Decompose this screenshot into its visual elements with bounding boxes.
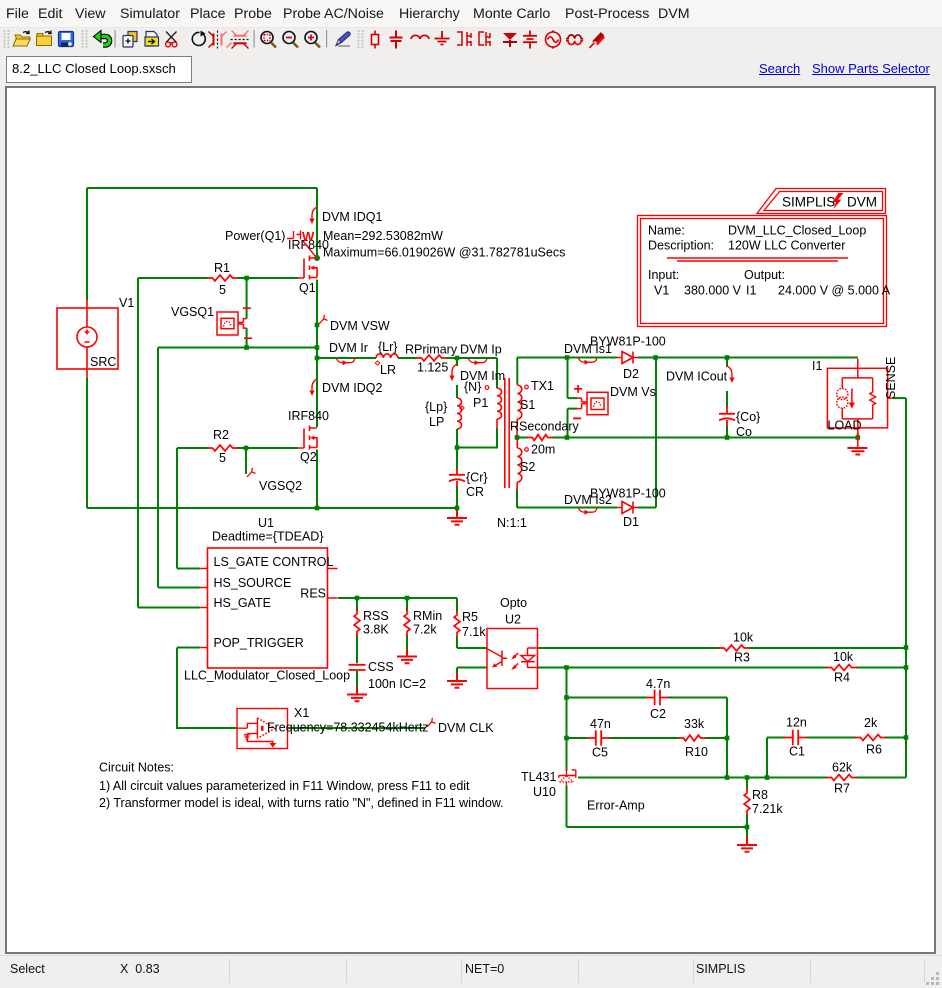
wire Q2 source — [316, 450, 318, 509]
svg-text:DVM ICout: DVM ICout — [666, 370, 728, 384]
label Q1 — [299, 281, 316, 295]
transistor Q1 IRF840 — [298, 256, 317, 280]
label {N} — [464, 380, 481, 394]
label 380V — [684, 284, 742, 298]
svg-text:TX1: TX1 — [531, 379, 554, 393]
label note 1 — [99, 779, 470, 793]
probe DVM Ip — [468, 358, 487, 365]
junction R2 VGSQ2 — [244, 446, 249, 451]
label U10 — [533, 785, 556, 799]
svg-text:C2: C2 — [650, 707, 666, 721]
svg-text:R5: R5 — [462, 610, 478, 624]
label RPrimary — [405, 343, 458, 357]
capacitor Co — [719, 406, 735, 426]
label R4 — [834, 671, 850, 685]
junction DVM VSW node — [315, 323, 320, 328]
label DVM Im — [460, 369, 505, 383]
svg-text:CSS: CSS — [368, 660, 394, 674]
wire Q1 drain — [316, 188, 318, 256]
label Deadtime — [212, 530, 324, 544]
svg-text:5: 5 — [219, 451, 226, 465]
svg-text:10k: 10k — [833, 650, 854, 664]
junction LP top — [455, 356, 460, 361]
svg-text:VGSQ1: VGSQ1 — [171, 305, 214, 319]
wire VIN top rail — [87, 187, 317, 189]
pin label RES — [300, 587, 326, 601]
wire VGSQ2 probe net — [245, 448, 247, 474]
value label RPrimary 1.125 — [417, 361, 448, 375]
label C2 — [650, 707, 666, 721]
svg-text:RSecondary: RSecondary — [510, 420, 580, 434]
svg-text:S1: S1 — [520, 398, 535, 412]
svg-text:LLC_Modulator_Closed_Loop: LLC_Modulator_Closed_Loop — [184, 669, 350, 683]
svg-text:X1: X1 — [294, 706, 309, 720]
wire Q2 drain — [316, 358, 318, 427]
probe DVM ICout — [727, 366, 735, 383]
svg-text:1) All circuit values paramete: 1) All circuit values parameterized in F… — [99, 779, 470, 793]
svg-text:U2: U2 — [505, 613, 521, 627]
svg-text:Description:: Description: — [648, 239, 714, 253]
resistor RSS — [354, 610, 360, 636]
label 24V 5A — [778, 284, 891, 298]
svg-text:Input:: Input: — [648, 268, 679, 282]
wire HS_SOURCE net — [158, 348, 200, 588]
junction R3 sense — [904, 645, 909, 650]
svg-text:7.1k: 7.1k — [462, 625, 486, 639]
capacitor CSS — [349, 665, 366, 670]
svg-text:V1: V1 — [654, 284, 669, 298]
label X1 — [294, 706, 309, 720]
label DVM IDQ1 — [322, 210, 382, 224]
svg-text:120W LLC Converter: 120W LLC Converter — [728, 239, 845, 253]
svg-text:CR: CR — [466, 485, 484, 499]
svg-text:SENSE: SENSE — [884, 357, 898, 399]
svg-text:Error-Amp: Error-Amp — [587, 799, 645, 813]
pin label LS_GATE CONTROL — [214, 555, 334, 569]
svg-text:62k: 62k — [832, 761, 853, 775]
probe DVM Is1 — [578, 358, 597, 365]
wire R2 gate Q2 — [177, 447, 298, 449]
wire secondary return — [517, 437, 857, 439]
wire TL431 anode to R8 bottom — [567, 786, 748, 827]
label note 2 — [99, 796, 504, 810]
svg-text:DVM: DVM — [847, 195, 877, 210]
ground RMin — [397, 649, 417, 664]
resistor RMin — [404, 610, 410, 636]
svg-text:Deadtime={TDEAD}: Deadtime={TDEAD} — [212, 530, 324, 544]
label Output — [744, 268, 785, 282]
svg-text:DVM Ir: DVM Ir — [329, 341, 368, 355]
svg-text:D1: D1 — [623, 515, 639, 529]
label DVM Ir — [329, 341, 368, 355]
svg-text:24.000 V @ 5.000 A: 24.000 V @ 5.000 A — [778, 284, 891, 298]
value label C2 4.7n — [646, 677, 670, 691]
junction load return — [856, 435, 861, 440]
svg-text:{N}: {N} — [464, 380, 481, 394]
label U1 — [258, 516, 274, 530]
label Frequency — [267, 721, 429, 735]
resistor R2 — [208, 445, 237, 451]
pin label POP_TRIGGER — [214, 636, 304, 650]
svg-text:12n: 12n — [786, 716, 807, 730]
oscillator X1 — [237, 709, 288, 749]
svg-text:Output:: Output: — [744, 268, 785, 282]
subcircuit U1 LLC_Modulator_Closed_Loop — [200, 548, 338, 668]
label LR — [380, 363, 396, 377]
junction RES RSS — [355, 596, 360, 601]
label DVM Ip — [460, 343, 502, 357]
label Power(Q1) — [225, 229, 285, 243]
label DVM_LLC_Closed_Loop — [728, 224, 866, 238]
wire LP branch — [456, 358, 458, 448]
svg-text:I1: I1 — [746, 284, 756, 298]
wire TL431 cathode net — [566, 668, 568, 772]
probe DVM CLK — [427, 718, 436, 727]
junction D2 Vout — [653, 355, 658, 360]
wire R1 gate Q1 — [138, 277, 298, 279]
wire switch node to LR RPrimary P1 — [317, 358, 497, 388]
label D2 — [623, 367, 639, 381]
svg-text:LOAD: LOAD — [828, 419, 862, 433]
svg-text:HS_SOURCE: HS_SOURCE — [214, 576, 292, 590]
wire S2 to D1 — [517, 489, 656, 508]
junction S1 D2 node — [565, 355, 570, 360]
probe VGSQ2 — [247, 468, 256, 477]
label TX1 — [531, 379, 554, 393]
svg-text:C5: C5 — [592, 746, 608, 760]
probe DVM VSW — [319, 315, 328, 324]
resistor R10 — [679, 735, 705, 741]
label R3 — [734, 651, 750, 665]
wire RMin branch — [406, 598, 408, 649]
wire V1 bottom — [86, 378, 88, 508]
label R10 — [685, 745, 708, 759]
probe DVM Vs — [573, 385, 608, 418]
svg-text:Q2: Q2 — [300, 450, 317, 464]
svg-text:Frequency=78.332454kHertz: Frequency=78.332454kHertz — [267, 721, 429, 735]
diode D2 BYW81P-100 — [617, 352, 638, 364]
resistor R3 — [720, 645, 749, 651]
svg-text:RPrimary: RPrimary — [405, 343, 458, 357]
wire P1 bottom — [457, 429, 497, 448]
label R6 — [866, 743, 882, 757]
svg-text:W: W — [302, 229, 315, 244]
label DVM IDQ2 — [322, 381, 382, 395]
svg-text:Circuit Notes:: Circuit Notes: — [99, 761, 174, 775]
svg-text:DVM_LLC_Closed_Loop: DVM_LLC_Closed_Loop — [728, 224, 866, 238]
resistor RSecondary — [528, 435, 552, 441]
junction switch node — [315, 356, 320, 361]
svg-text:R8: R8 — [752, 788, 768, 802]
wire DVM Vs minus — [568, 409, 578, 438]
label LLC_Modulator_Closed_Loop — [184, 669, 350, 683]
junction CR ground rail — [455, 506, 460, 511]
current source load I1 — [827, 359, 893, 448]
wire CR branch — [456, 448, 458, 509]
label RSS — [363, 609, 389, 623]
label R7 — [834, 782, 850, 796]
junction opto TL431 — [564, 665, 569, 670]
svg-text:{Co}: {Co} — [736, 410, 760, 424]
label DVM Vs — [610, 385, 656, 399]
label SIMPLIS logo — [782, 195, 835, 210]
label S1 — [520, 398, 535, 412]
svg-text:SIMPLIS: SIMPLIS — [782, 195, 835, 210]
label SENSE — [884, 357, 898, 399]
label V1 input — [654, 284, 669, 298]
value label R2 5 — [219, 451, 226, 465]
svg-text:7.21k: 7.21k — [752, 802, 783, 816]
svg-text:BYW81P-100: BYW81P-100 — [590, 487, 666, 501]
junction R4 sense — [904, 665, 909, 670]
capacitor C1 — [785, 731, 806, 745]
svg-text:R7: R7 — [834, 782, 850, 796]
label Q2 — [300, 450, 317, 464]
wire C5 R10 branch — [567, 737, 728, 739]
node Q1 drain dot — [314, 255, 320, 261]
label Co — [736, 425, 752, 439]
wire R8 top — [746, 778, 748, 790]
transistor Q2 IRF840 — [298, 426, 317, 450]
label S2 — [520, 460, 535, 474]
value label R5 7.1k — [462, 625, 486, 639]
probe DVM Is2 — [578, 508, 597, 515]
svg-text:DVM Vs: DVM Vs — [610, 385, 656, 399]
wire HS_GATE net — [138, 278, 200, 608]
svg-text:VGSQ2: VGSQ2 — [259, 479, 302, 493]
value label RSecondary 20m — [531, 443, 555, 457]
value label RMin 7.2k — [413, 623, 437, 637]
junction RES RMin — [405, 596, 410, 601]
wire load bottom — [857, 433, 859, 438]
wire TL431 ref to R7 — [578, 777, 906, 779]
svg-text:LR: LR — [380, 363, 396, 377]
param marker Lr — [375, 361, 379, 365]
svg-text:Maximum=66.019026W @31.782781u: Maximum=66.019026W @31.782781uSecs — [323, 246, 565, 260]
svg-text:U10: U10 — [533, 785, 556, 799]
resistor R4 — [827, 665, 856, 671]
label SRC — [90, 355, 116, 369]
ground CR — [447, 510, 467, 525]
label {Co} — [736, 410, 760, 424]
wire LS_GATE net — [177, 448, 200, 569]
label RSecondary — [510, 420, 580, 434]
inductor LR — [376, 354, 398, 358]
transformer primary P1 — [497, 387, 502, 429]
svg-text:{Lr}: {Lr} — [378, 340, 397, 354]
ground opto — [447, 673, 467, 688]
label LOAD — [828, 419, 862, 433]
junction source sense — [315, 345, 320, 350]
wire POP_TRIGGER net — [177, 648, 237, 729]
wire C1 left vertical — [766, 738, 768, 778]
junction ref node R8 — [745, 775, 750, 780]
label DVM Is2 — [564, 493, 612, 507]
junction C2 R10 right — [725, 736, 730, 741]
label DVM ICout — [666, 370, 728, 384]
optocoupler U2 — [487, 629, 538, 689]
wire SENSE tap — [893, 397, 906, 399]
shunt regulator U10 TL431 — [559, 769, 576, 786]
label DVM Is1 — [564, 342, 612, 356]
label DVM CLK — [438, 721, 494, 735]
marker TX1 — [525, 385, 529, 389]
svg-text:100n IC=2: 100n IC=2 — [368, 677, 426, 691]
svg-text:5: 5 — [219, 283, 226, 297]
marker N — [485, 386, 489, 390]
svg-text:P1: P1 — [473, 396, 488, 410]
value label R8 7.21k — [752, 802, 783, 816]
wire opto cathode to ground — [457, 668, 487, 674]
label Name — [648, 224, 685, 238]
junction R8 ground node — [745, 825, 750, 830]
svg-text:N:1:1: N:1:1 — [497, 516, 527, 530]
svg-text:Opto: Opto — [500, 596, 527, 610]
svg-text:Power(Q1): Power(Q1) — [225, 229, 285, 243]
probe DVM Im — [449, 364, 457, 381]
svg-text:33k: 33k — [684, 717, 705, 731]
wire CSS to ground — [356, 671, 358, 687]
junction VGSQ1 bottom — [244, 345, 249, 350]
svg-text:DVM IDQ1: DVM IDQ1 — [322, 210, 382, 224]
transformer secondary S1 — [517, 384, 522, 436]
resistor R6 — [856, 735, 885, 741]
DVM logo lightning — [833, 193, 844, 209]
wire opto out to R3 — [538, 647, 907, 649]
label C1 — [789, 745, 805, 759]
wire S1 to D2 to Vout — [517, 357, 858, 359]
wire Co top — [726, 358, 728, 368]
resistor R7 — [827, 775, 856, 781]
svg-text:R10: R10 — [685, 745, 708, 759]
label VGSQ1 — [171, 305, 214, 319]
svg-text:{Lp}: {Lp} — [425, 400, 447, 414]
probe DVM IDQ2 — [309, 379, 317, 396]
svg-text:2k: 2k — [864, 716, 878, 730]
label D1 — [623, 515, 639, 529]
svg-text:47n: 47n — [590, 717, 611, 731]
marker 20m — [525, 448, 529, 452]
label Opto — [500, 596, 527, 610]
svg-text:3.8K: 3.8K — [363, 623, 389, 637]
junction Co bottom node — [725, 435, 730, 440]
junction Co top node — [725, 355, 730, 360]
label CR — [466, 485, 484, 499]
svg-text:IRF840: IRF840 — [288, 409, 329, 423]
junction R6 sense — [904, 735, 909, 740]
resistor R8 — [744, 789, 750, 815]
wire D2 D1 cathode join — [655, 358, 657, 508]
label DVM logo — [847, 195, 877, 210]
wire DVM Vs plus — [568, 358, 578, 399]
svg-text:RSS: RSS — [363, 609, 389, 623]
wire C1 R6 branch — [767, 737, 906, 739]
junction R1 VGSQ1 — [244, 276, 249, 281]
label {Lp} — [425, 400, 447, 414]
label Error-Amp — [587, 799, 645, 813]
probe DVM IDQ1 — [309, 207, 317, 224]
resistor R1 — [208, 275, 237, 281]
svg-text:R1: R1 — [214, 261, 230, 275]
resistor R5 — [454, 611, 460, 637]
label {Cr} — [466, 471, 488, 485]
junction ref node C1 — [765, 775, 770, 780]
label RMin — [413, 609, 442, 623]
label W probe — [302, 229, 315, 244]
label 120W LLC Converter — [728, 239, 845, 253]
pin label HS_SOURCE — [214, 576, 292, 590]
value label C1 12n — [786, 716, 807, 730]
wire Co bottom — [726, 391, 728, 438]
label Mean — [323, 229, 443, 243]
svg-text:{Cr}: {Cr} — [466, 471, 488, 485]
wire to error amp ground — [746, 827, 748, 838]
wire V1 top — [86, 188, 88, 300]
svg-text:10k: 10k — [733, 631, 754, 645]
label Q2 IRF840 — [288, 409, 329, 423]
svg-text:Co: Co — [736, 425, 752, 439]
svg-text:POP_TRIGGER: POP_TRIGGER — [214, 636, 304, 650]
label V1 — [119, 296, 134, 310]
svg-text:380.000 V: 380.000 V — [684, 284, 742, 298]
capacitor CR — [449, 468, 465, 487]
capacitor C2 — [647, 691, 668, 705]
wire primary ground rail — [87, 507, 457, 509]
svg-text:SRC: SRC — [90, 355, 116, 369]
label R1 — [214, 261, 230, 275]
svg-text:7.2k: 7.2k — [413, 623, 437, 637]
wire VGSQ1 probe net — [246, 278, 248, 348]
junction LP bottom — [455, 445, 460, 450]
svg-text:DVM CLK: DVM CLK — [438, 721, 494, 735]
svg-text:4.7n: 4.7n — [646, 677, 670, 691]
svg-text:U1: U1 — [258, 516, 274, 530]
svg-text:R3: R3 — [734, 651, 750, 665]
label D2 BYW81P-100 — [590, 335, 666, 349]
junction transformer center tap — [515, 435, 520, 440]
label C5 — [592, 746, 608, 760]
wire S1 top lead — [516, 358, 518, 385]
capacitor C5 — [588, 731, 609, 745]
label Description — [648, 239, 714, 253]
inductor LP — [457, 398, 462, 429]
junction C5 left — [564, 736, 569, 741]
svg-text:I1: I1 — [812, 359, 822, 373]
junction C2 left — [564, 695, 569, 700]
label Input — [648, 268, 679, 282]
svg-text:2) Transformer model is ideal,: 2) Transformer model is ideal, with turn… — [99, 796, 504, 810]
DVM report box — [638, 189, 887, 327]
svg-text:LP: LP — [429, 415, 444, 429]
wire RES net — [338, 597, 457, 599]
label I1 — [812, 359, 822, 373]
value label RSS 3.8K — [363, 623, 389, 637]
label R5 — [462, 610, 478, 624]
svg-text:LS_GATE CONTROL: LS_GATE CONTROL — [214, 555, 334, 569]
wire opto out to R4 — [538, 667, 907, 669]
resistor RPrimary — [417, 355, 446, 361]
label R2 — [213, 428, 229, 442]
diode D1 BYW81P-100 — [617, 502, 638, 514]
label U2 — [505, 613, 521, 627]
svg-text:Name:: Name: — [648, 224, 685, 238]
value label CSS 100n IC=2 — [368, 677, 426, 691]
probe VGSQ1 — [217, 308, 252, 338]
svg-text:BYW81P-100: BYW81P-100 — [590, 335, 666, 349]
transformer secondary S2 — [517, 440, 522, 491]
label LP — [429, 415, 444, 429]
svg-text:D2: D2 — [623, 367, 639, 381]
